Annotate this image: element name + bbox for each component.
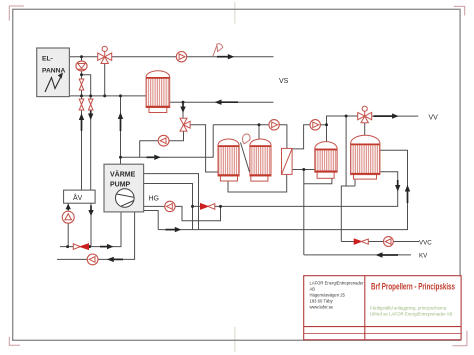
svg-text:HG: HG: [149, 196, 160, 203]
wire: top feed line to tanks and pump P2: [213, 124, 269, 126]
shut-off valve V5: [79, 99, 84, 110]
arrow: VS supply right: [217, 56, 229, 58]
check valve CV1: [73, 244, 88, 250]
wire: VP right port 4 to return bus start: [144, 211, 159, 230]
wire: check line to tank T4 lower port: [193, 172, 398, 207]
el-panna EP1: [37, 48, 70, 97]
arrow: down from AV box right: [90, 206, 92, 211]
pump P4: [158, 135, 169, 146]
wire: return bus L1 to tank T4 riser: [158, 150, 407, 229]
svg-text:VVC: VVC: [419, 239, 432, 246]
check valve CV3: [354, 239, 368, 244]
wire: VV outlet line: [372, 115, 418, 117]
tank T3: [315, 142, 337, 179]
tank HX1: [146, 71, 170, 113]
arrow: up on left AV line: [81, 119, 83, 131]
wire: AV right riser to check line: [90, 203, 92, 246]
svg-text:www.lafor.se: www.lafor.se: [310, 305, 334, 310]
wire: HX2 right top to pump P3: [292, 125, 310, 149]
check valve CV2: [201, 204, 215, 210]
corner mark bottom-left: [9, 337, 20, 345]
arrow: down on tank T4 inner riser: [397, 180, 399, 186]
wire: VP supply line to riser: [121, 125, 214, 158]
svg-text:VV: VV: [429, 115, 439, 122]
svg-text:Hägernäsvägen 25: Hägernäsvägen 25: [310, 293, 346, 298]
svg-text:VS: VS: [279, 78, 289, 85]
wire: VS return line from HX1: [170, 101, 274, 103]
wire: VP right port 2 down through check line: [144, 184, 193, 230]
three-way valve V3: [358, 106, 372, 123]
pump P5 (HG): [165, 201, 175, 211]
pump P6 (AV): [62, 211, 74, 223]
arrow: right on return bus L1: [166, 229, 176, 231]
wire: riser from 3-way valve V1 to lower line: [104, 61, 106, 96]
svg-text:Färdigställd anläggning, princ: Färdigställd anläggning, principschema: [370, 306, 447, 311]
svg-text:AB: AB: [310, 287, 316, 292]
node: junction dots: [66, 55, 348, 248]
svg-text:EL-: EL-: [42, 56, 53, 63]
arrow: down to valve V2: [182, 104, 184, 108]
arrow: right on VP supply line: [147, 156, 156, 158]
wire: HX2 right bottom to tank T3 left: [292, 169, 315, 171]
svg-text:Brf Propellern - Principskiss: Brf Propellern - Principskiss: [371, 282, 455, 292]
svg-text:KV: KV: [419, 253, 428, 260]
wire: KV line: [304, 254, 411, 256]
arrow: up on tank T4 outer riser: [407, 191, 409, 203]
shut-off valve V4: [79, 79, 84, 90]
wire: tank T4 bottom stub: [354, 179, 356, 186]
arrow: VV outlet right: [374, 115, 393, 117]
flag indicator F1: [213, 44, 223, 57]
wire: KV riser: [303, 170, 305, 255]
fold mark top: [234, 2, 236, 24]
pump P1: [176, 52, 186, 62]
wire: el-panna lower line to HX1: [69, 95, 146, 97]
wire: VP right port 1 down to return bus: [144, 174, 199, 230]
wire: branch down from VS return to valve V2: [182, 102, 184, 118]
svg-text:ÅV: ÅV: [73, 193, 83, 202]
wire: el-panna pump branch vertical: [81, 57, 83, 96]
wire: cold side check line into VP: [60, 212, 121, 247]
wire: pump P2 outlet into HX2 top: [279, 125, 287, 149]
wire: tank T3 top riser: [326, 125, 328, 142]
plate heat exchanger HX2: [282, 148, 293, 174]
flow arrows: [66, 54, 411, 262]
svg-text:VÄRME: VÄRME: [110, 171, 136, 179]
wire: jog and VVC riser: [341, 186, 355, 242]
wire: valve V2 bottom to pump P4 and down to VP supply line: [140, 131, 184, 157]
wire: tank T3 bottom to KV riser: [304, 178, 332, 183]
heat recovery box AV1: [64, 190, 96, 203]
wire: valve line left down to AV box: [81, 96, 83, 190]
svg-text:LAFOR EnergiEntreprenader: LAFOR EnergiEntreprenader: [310, 281, 365, 286]
wire: HG pump staircase to check line: [175, 206, 220, 220]
wire: riser to VV line and mixing valve V3: [327, 116, 358, 125]
heat pump VP1: [104, 164, 144, 212]
wire: valve V2 right port to tank T1 left: [190, 125, 219, 172]
pump P7 (brine): [87, 254, 98, 265]
safety valve SV1: [76, 61, 87, 71]
corner mark bottom-right: [452, 331, 467, 346]
wire: AV pump riser to check line: [67, 203, 69, 246]
three-way valve V1: [98, 46, 112, 63]
wire: VVC line: [341, 241, 419, 243]
pump P2: [269, 120, 279, 130]
tank T1: [218, 139, 239, 181]
tank T2: [250, 139, 271, 181]
fold mark bottom: [234, 327, 236, 352]
pump P8 (VVC): [384, 237, 394, 247]
thermometer pennant on tank T2: [241, 134, 251, 172]
corner mark top-right: [454, 6, 465, 15]
wire: valve line right down to AV box: [90, 96, 92, 190]
wire: pump bypass to right valve line: [82, 75, 91, 96]
three-way valve V2: [180, 118, 190, 131]
arrow: up into AV box: [67, 207, 69, 210]
wire: HG line from VP to pump P5: [144, 205, 165, 207]
wire: pump P3 outlet to dot: [320, 124, 326, 126]
arrow: KV inlet left: [382, 254, 398, 256]
wire: tank T1 bottom to HX2 bottom bus: [228, 174, 287, 192]
wire: VP riser from lower line to heat pump: [120, 96, 122, 164]
pump P3: [310, 120, 320, 130]
svg-text:Utförd av LAFOR EnergiEntrepre: Utförd av LAFOR EnergiEntreprenader AB: [370, 312, 453, 317]
arrow: VS return left: [221, 101, 238, 103]
shut-off valve V6: [88, 99, 93, 110]
svg-text:PUMP: PUMP: [110, 182, 131, 189]
wire: riser between tanks from VV dot down: [345, 116, 347, 186]
svg-text:183 60 Täby: 183 60 Täby: [310, 299, 334, 304]
title block: [304, 276, 461, 340]
wire: tank T2 top riser: [258, 125, 260, 140]
arrow: up on VP riser: [120, 119, 122, 132]
wire: brine return line from VP: [57, 212, 135, 260]
arrow: brine line left: [113, 258, 123, 260]
wire: VS supply line from el-panna: [69, 56, 273, 58]
arrow: down on right AV line: [90, 110, 92, 114]
wire: valve V3 bottom to tank T4 top: [364, 122, 366, 136]
arrow: right on cold check line: [100, 246, 108, 248]
corner mark top-left: [9, 6, 23, 21]
tank T4: [351, 135, 380, 179]
